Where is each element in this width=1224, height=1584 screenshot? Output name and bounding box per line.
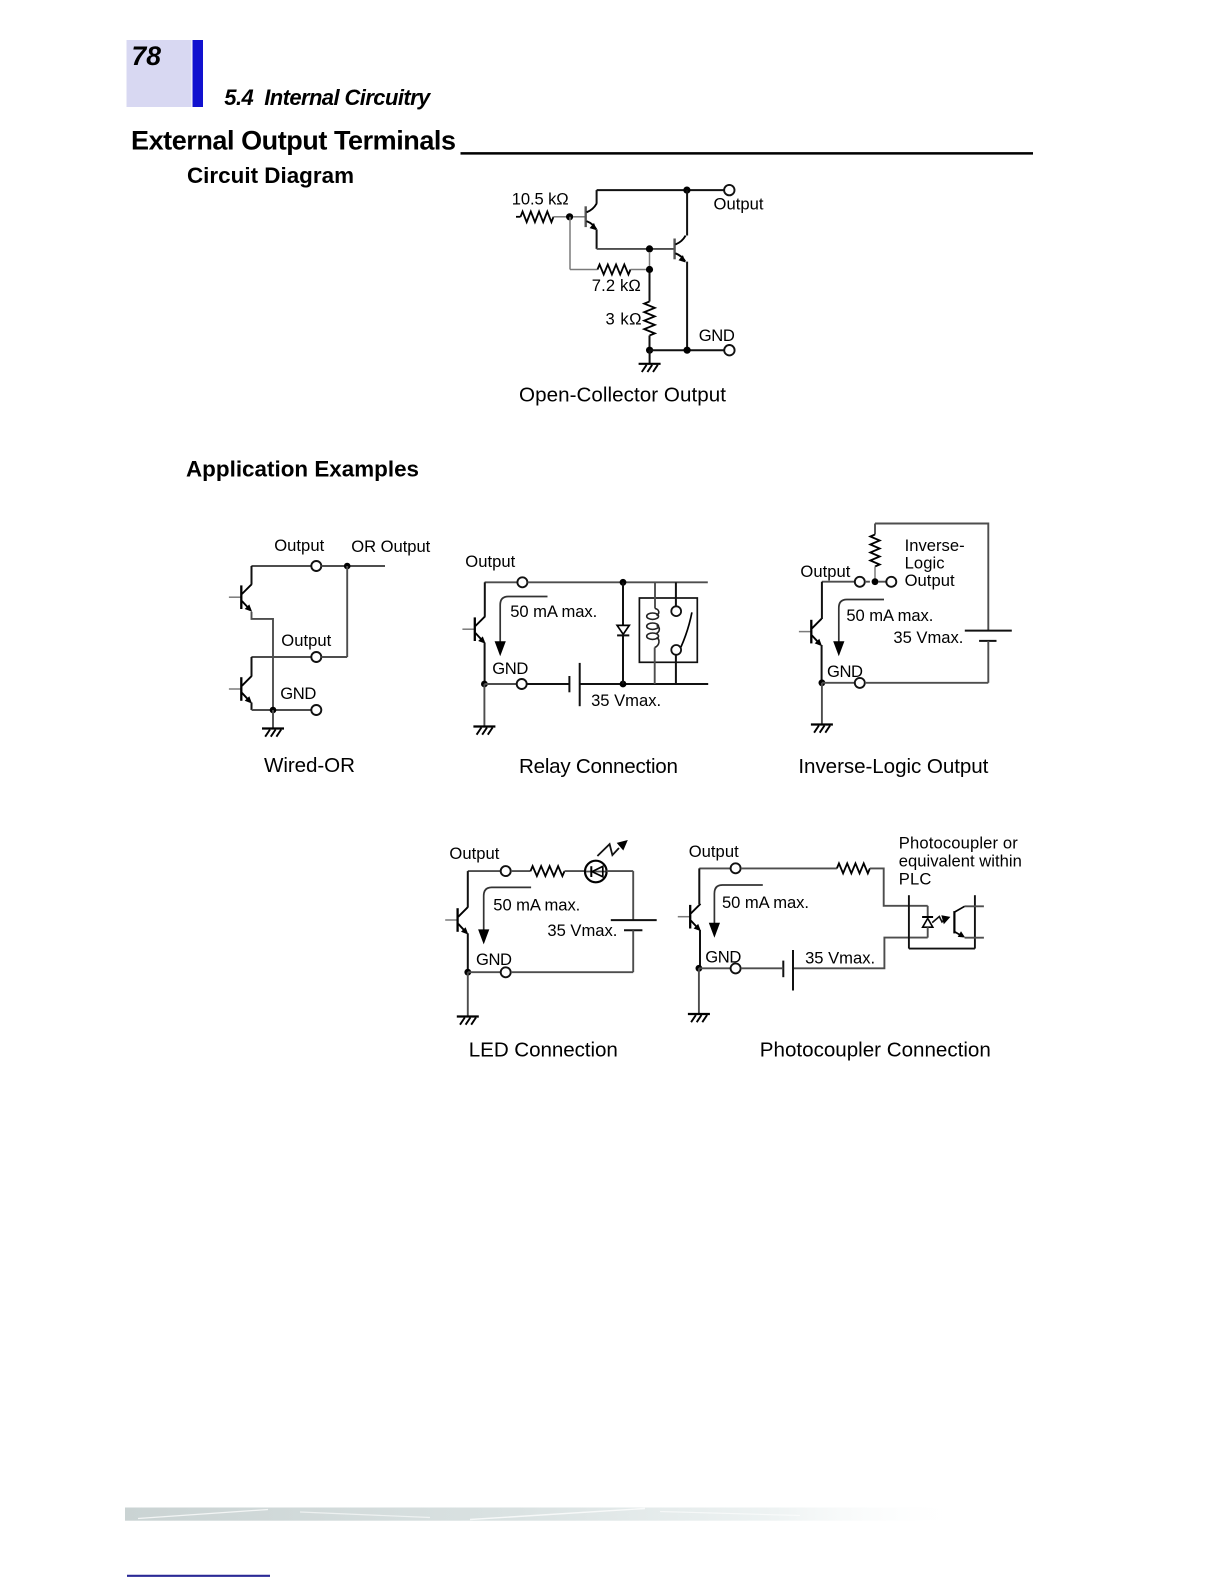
svg-text:35 Vmax.: 35 Vmax.: [547, 921, 617, 940]
rail to inverse terminal: [879, 581, 887, 583]
svg-text:Output: Output: [689, 842, 739, 861]
GND rail: [650, 349, 725, 351]
wire to ground symbol: [821, 683, 823, 724]
svg-text:35 Vmax.: 35 Vmax.: [805, 948, 875, 967]
svg-text:35 Vmax.: 35 Vmax.: [893, 628, 963, 647]
GND terminal circle: [517, 679, 527, 689]
svg-text:Circuit Diagram: Circuit Diagram: [187, 163, 354, 188]
svg-text:50 mA max.: 50 mA max.: [846, 606, 933, 625]
rail resistor to LED: [565, 870, 586, 872]
top rail to Output: [597, 189, 725, 191]
wire collector to rail: [467, 871, 469, 907]
svg-text:Inverse-Logic Output: Inverse-Logic Output: [798, 755, 988, 778]
svg-text:50 mA max.: 50 mA max.: [493, 896, 580, 915]
GND rail: [252, 709, 312, 711]
wire coil top: [654, 582, 656, 608]
GND rail: [699, 967, 731, 969]
junction GND left: [696, 965, 703, 972]
GND terminal circle: [731, 963, 741, 973]
svg-text:Output: Output: [714, 195, 764, 214]
junction diode top: [620, 579, 627, 586]
photocoupler box: [909, 895, 975, 948]
GND terminal circle: [501, 967, 511, 977]
rail between circles: [865, 581, 870, 583]
rail LED to right edge: [606, 870, 633, 872]
transistor Q1: [586, 203, 597, 230]
resistor R1 10.5 kOhm: [516, 216, 521, 218]
svg-text:GND: GND: [492, 659, 528, 678]
wire Q1 collector to rail: [251, 566, 253, 585]
wire Q2 collector to rail: [251, 657, 253, 676]
current arrow 50 mA: [495, 597, 548, 657]
svg-text:GND: GND: [699, 326, 735, 345]
wire coil bottom: [654, 648, 656, 685]
wire collector to rail: [698, 868, 700, 904]
wire node A to Q1 base: [573, 216, 585, 218]
switch arm: [681, 612, 692, 647]
svg-text:OR Output: OR Output: [351, 537, 430, 556]
Output terminal circle: [724, 185, 734, 195]
decorative gradient band: [125, 1508, 993, 1521]
svg-text:External Output Terminals: External Output Terminals: [131, 126, 456, 156]
emitter stub: [965, 937, 984, 939]
wire emitter down: [467, 933, 469, 972]
transistor Q LED: [445, 907, 468, 935]
LED cathode stub: [927, 927, 929, 937]
top rail segment: [251, 565, 311, 567]
top rail segment: [468, 870, 501, 872]
svg-text:LED Connection: LED Connection: [469, 1038, 618, 1061]
wire emitter rail to Q2 base: [597, 248, 674, 250]
switch contact lower: [671, 645, 681, 655]
wire to ground symbol: [649, 350, 651, 363]
battery positive plate: [965, 630, 1012, 632]
svg-text:Wired-OR: Wired-OR: [264, 754, 355, 777]
transistor Q2 wired-OR: [229, 676, 252, 704]
top loop wire: [875, 524, 988, 631]
svg-text:50 mA max.: 50 mA max.: [510, 602, 597, 621]
battery B1 negative plate: [568, 676, 570, 692]
battery negative plate: [782, 961, 784, 978]
wire to ground symbol: [483, 684, 485, 726]
wire Q2 collector up: [686, 190, 688, 235]
wire Q1 emitter down: [596, 229, 598, 249]
wire collector to rail: [821, 582, 823, 619]
svg-text:PLC: PLC: [899, 869, 932, 888]
top rail segment right: [321, 565, 385, 567]
transistor Q inverse: [799, 619, 822, 647]
wire OR node down: [346, 566, 348, 657]
wire to ground symbol: [467, 972, 469, 1015]
diode D1: [617, 625, 629, 634]
switch contact upper: [671, 606, 681, 616]
svg-text:Output: Output: [905, 571, 955, 590]
svg-text:Relay Connection: Relay Connection: [519, 755, 678, 778]
wire switch bottom: [675, 655, 677, 684]
junction top rail: [683, 187, 690, 194]
wire Q1 collector up: [596, 190, 598, 204]
svg-text:equivalent within: equivalent within: [899, 851, 1022, 870]
top rail segment: [699, 867, 730, 869]
ground: [688, 1014, 710, 1022]
svg-text:3 kΩ: 3 kΩ: [606, 310, 642, 329]
transistor Q1 wired-OR: [229, 584, 252, 612]
GND rail to battery: [741, 967, 784, 969]
right edge wire: [632, 871, 634, 920]
label Inverse-Logic Output: [905, 536, 965, 590]
ground: [811, 725, 833, 733]
junction diode bottom: [620, 681, 627, 688]
wire battery to GND rail: [987, 641, 989, 683]
junction resistor node: [872, 578, 879, 585]
junction GND left: [646, 347, 653, 354]
wire node A down: [569, 217, 571, 270]
ground: [262, 729, 284, 737]
battery positive plate: [792, 950, 794, 991]
second rail segment right: [321, 656, 347, 658]
wire to resistor: [874, 524, 876, 535]
second rail segment: [251, 656, 311, 658]
node B junction: [646, 266, 653, 273]
GND terminal circle: [724, 345, 734, 355]
wire to R2: [570, 269, 598, 271]
svg-text:Output: Output: [800, 562, 850, 581]
junction OR node: [344, 563, 351, 570]
junction emitter rail: [646, 245, 653, 252]
wire LED to battery loop: [793, 938, 928, 969]
svg-text:7.2 kΩ: 7.2 kΩ: [592, 276, 641, 295]
rail to resistor: [511, 870, 531, 872]
svg-text:Output: Output: [449, 844, 499, 863]
wire node B down to R3: [649, 273, 651, 302]
wire Q1 emitter jog: [252, 612, 274, 708]
rail to resistor: [741, 867, 837, 869]
rail resistor to corner: [870, 868, 928, 905]
current arrow 50 mA: [709, 885, 763, 938]
GND rail segment: [484, 683, 516, 685]
heading underline: [461, 152, 1034, 155]
current arrow 50 mA: [833, 600, 884, 657]
top rail segment right: [528, 581, 708, 583]
wire R3 to GND rail: [649, 336, 651, 351]
diode D1 wire: [622, 582, 624, 625]
GND terminal circle: [855, 678, 865, 688]
LED light arrow: [597, 840, 627, 856]
GND rail to battery: [527, 683, 570, 685]
svg-text:78: 78: [132, 41, 162, 71]
wire to ground symbol: [698, 968, 700, 1013]
transistor Q relay: [462, 616, 485, 644]
GND terminal circle: [311, 705, 321, 715]
blue sidebar: [193, 40, 204, 107]
wire Q2 emitter down to GND rail: [686, 262, 688, 351]
series resistor: [837, 863, 870, 873]
relay coil L1: [647, 609, 660, 648]
Output terminal circle middle: [311, 652, 321, 662]
photocoupler LED: [922, 917, 933, 927]
light arrow to phototransistor: [932, 915, 950, 924]
GND rail right: [865, 682, 988, 684]
wire emitter down: [821, 645, 823, 683]
GND rail right: [511, 971, 633, 973]
svg-text:Open-Collector Output: Open-Collector Output: [519, 383, 726, 406]
svg-text:10.5 kΩ: 10.5 kΩ: [512, 190, 569, 209]
relay box: [639, 598, 697, 662]
svg-text:Logic: Logic: [905, 553, 945, 572]
svg-text:Photocoupler Connection: Photocoupler Connection: [760, 1038, 991, 1061]
phototransistor: [954, 906, 965, 937]
resistor R2 7.2 kOhm: [598, 265, 631, 275]
pull-up resistor: [870, 535, 879, 567]
junction GND rail: [270, 707, 277, 714]
svg-text:GND: GND: [280, 684, 316, 703]
transistor Q2: [675, 236, 686, 263]
junction GND left: [464, 969, 471, 976]
node A junction: [566, 213, 573, 220]
wire to ground symbol: [272, 710, 274, 728]
wire battery to GND rail: [632, 930, 634, 972]
Inverse-Logic terminal circle: [886, 577, 896, 587]
wire switch top: [675, 582, 677, 606]
battery B1 positive plate: [579, 663, 581, 706]
output rail segment: [822, 581, 855, 583]
top rail segment: [485, 581, 518, 583]
wire Q2 emitter to GND rail: [251, 703, 253, 711]
battery negative plate: [979, 640, 996, 642]
wire collector to rail: [484, 582, 486, 616]
Output terminal circle: [855, 577, 865, 587]
battery positive plate: [611, 919, 657, 921]
Output terminal circle top: [311, 561, 321, 571]
Output terminal circle: [731, 863, 741, 873]
Output terminal circle: [501, 866, 511, 876]
current arrow 50 mA: [478, 887, 531, 944]
svg-text:Output: Output: [281, 631, 331, 650]
wire emitter to GND rail: [484, 643, 486, 685]
collector stub: [965, 905, 984, 907]
LED anode stub: [927, 906, 929, 916]
svg-text:50 mA max.: 50 mA max.: [722, 893, 809, 912]
ground: [639, 364, 661, 372]
wire resistor to rail: [874, 567, 876, 581]
battery negative plate: [624, 929, 642, 931]
junction GND left: [819, 679, 826, 686]
svg-text:GND: GND: [476, 950, 512, 969]
wire emitter down: [699, 930, 701, 968]
label Photocoupler or equivalent within PLC: [899, 833, 1022, 888]
LED D1: [585, 861, 607, 883]
rail battery to right end: [580, 683, 709, 685]
transistor Q photocoupler: [678, 904, 701, 932]
junction GND left: [481, 681, 488, 688]
junction GND rail: [684, 347, 691, 354]
svg-text:Inverse-: Inverse-: [905, 536, 965, 555]
resistor R3 3 kOhm: [644, 302, 655, 336]
page number box: [127, 40, 192, 107]
Output terminal circle: [517, 577, 527, 587]
ground: [457, 1017, 479, 1025]
wire node B up link: [649, 252, 651, 266]
wire R2 to node B: [631, 269, 646, 271]
GND rail: [822, 682, 855, 684]
wire R1 to node A: [554, 216, 567, 218]
svg-text:5.4 Internal Circuitry: 5.4 Internal Circuitry: [224, 85, 432, 110]
ground: [473, 727, 495, 735]
svg-text:Output: Output: [465, 552, 515, 571]
series resistor: [531, 866, 565, 876]
svg-text:Output: Output: [274, 536, 324, 555]
GND rail: [468, 971, 501, 973]
svg-text:Photocoupler or: Photocoupler or: [899, 833, 1018, 852]
svg-text:35 Vmax.: 35 Vmax.: [591, 691, 661, 710]
footer blue line: [127, 1575, 270, 1577]
svg-text:Application Examples: Application Examples: [186, 457, 419, 482]
